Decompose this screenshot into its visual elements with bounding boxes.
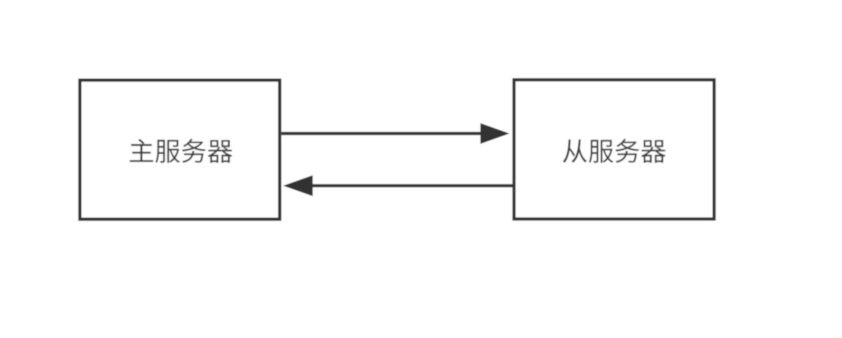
box: master server (主服务器) (80, 80, 280, 219)
wire: master to slave arrow shaft (281, 132, 482, 135)
arrowhead: slave to master (283, 175, 313, 196)
label 从服务器 (563, 139, 666, 163)
label 主服务器 (130, 139, 233, 163)
wire: slave to master arrow shaft (312, 184, 514, 187)
arrowhead: master to slave (480, 123, 509, 144)
box: slave server (从服务器) (514, 80, 714, 219)
